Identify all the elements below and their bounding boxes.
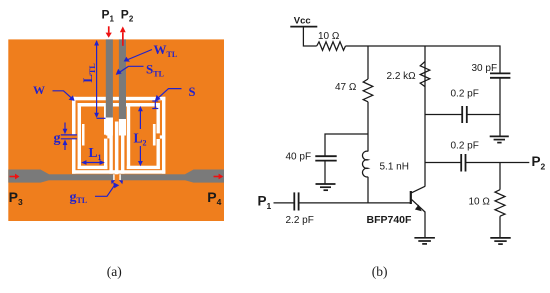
ground 40pF — [316, 183, 336, 185]
resistor R 10ohm zigzag — [317, 42, 346, 51]
svg-text:(b): (b) — [372, 264, 388, 279]
ground transistor — [414, 237, 435, 239]
blue labels — [33, 42, 196, 205]
svg-text:10 Ω: 10 Ω — [318, 31, 340, 42]
svg-text:S: S — [189, 85, 196, 99]
capacitor 0.2pF lower plates — [460, 154, 462, 172]
svg-text:47 Ω: 47 Ω — [335, 82, 357, 93]
wire inductor to base line — [367, 177, 369, 203]
right inner ring left side — [127, 103, 130, 169]
red port arrow P2 (up) — [120, 26, 126, 45]
central slot — [115, 122, 119, 175]
svg-text:0.2 pF: 0.2 pF — [451, 141, 479, 152]
svg-text:0.2 pF: 0.2 pF — [451, 89, 479, 100]
arrowheads L1 — [81, 160, 86, 165]
right inner ring right side (split) — [157, 103, 160, 133]
capacitor 2.2pF plates — [293, 192, 295, 210]
emitter arrowhead — [415, 205, 422, 212]
wire 40pF top tap — [325, 134, 368, 156]
red arrow on TL left — [10, 174, 20, 180]
slot column under feed strip 1 — [106, 118, 113, 136]
slot ring: outer top band — [72, 97, 165, 101]
svg-text:W: W — [33, 83, 45, 97]
capacitor 40pF plates — [315, 155, 336, 157]
arrowhead W — [69, 95, 75, 101]
wire 47ohm branch from top — [367, 46, 369, 79]
wire upper 0.2pF right — [467, 114, 500, 116]
wire 47ohm to inductor node — [367, 102, 369, 152]
svg-text:2.2 kΩ: 2.2 kΩ — [387, 71, 417, 82]
blue dimension annotations — [53, 41, 182, 196]
emitter diagonal — [412, 199, 426, 212]
svg-text:(a): (a) — [107, 264, 122, 279]
inductor 5.1nH coil — [362, 151, 368, 177]
ground 30pF — [490, 135, 509, 137]
wire base line — [299, 202, 410, 204]
left inner-to-outer bridge dash — [107, 135, 109, 138]
svg-text:30 pF: 30 pF — [472, 63, 498, 74]
wire 10ohm to ground — [499, 216, 501, 238]
resistor 47ohm zigzag — [363, 79, 373, 102]
capacitor 0.2pF upper plates — [461, 106, 463, 123]
feed strip P1 (gray microstrip) — [106, 39, 113, 117]
wire 10ohm branch down — [499, 163, 501, 190]
slot ring: outer bottom band — [72, 170, 165, 174]
wire 40pF to ground — [324, 161, 326, 184]
capacitor 30pF plates — [490, 72, 510, 74]
arrowheads g — [63, 129, 68, 135]
arrowhead STL — [116, 69, 122, 75]
collector wire up — [424, 46, 426, 187]
label STL leader — [118, 66, 144, 73]
arrowheads L2 — [138, 106, 143, 111]
wire Vcc down — [303, 27, 316, 46]
gTL gap mini arrows — [111, 180, 115, 184]
wire upper 0.2pF left — [425, 114, 462, 116]
slot ring: inner top band — [78, 103, 160, 107]
svg-text:BFP740F: BFP740F — [367, 214, 413, 226]
left outer ring left side (split at g) — [72, 97, 76, 135]
component labels (b) — [258, 16, 546, 227]
white slivers at TL gap — [113, 174, 114, 180]
arrowhead S — [155, 95, 161, 101]
svg-text:40 pF: 40 pF — [286, 152, 312, 163]
slot ring: inner bottom band right — [127, 166, 160, 169]
svg-text:Vcc: Vcc — [294, 16, 311, 27]
slot ring: inner bottom band left — [78, 166, 108, 169]
arrowhead WTL — [124, 57, 130, 62]
bottom transmission line P3-P4 — [8, 170, 224, 183]
substrate board — [8, 39, 224, 221]
wire 30pF to ground — [499, 78, 501, 137]
gTL leader — [95, 184, 116, 197]
svg-text:2.2 pF: 2.2 pF — [286, 215, 314, 226]
svg-text:g: g — [54, 131, 61, 146]
left outer ring right side — [109, 97, 112, 174]
label S leader — [158, 89, 182, 99]
label WTL leader — [128, 50, 152, 60]
left inner ring split overlap stub — [82, 124, 85, 146]
label W leader — [53, 91, 72, 99]
resistor 2.2k zigzag — [420, 62, 430, 87]
L1 dimension line — [83, 162, 103, 164]
Vcc rail tick — [290, 26, 317, 28]
right inner-to-outer bridge dash — [160, 135, 163, 138]
svg-text:5.1 nH: 5.1 nH — [380, 162, 409, 173]
slot column under feed strip 2 — [119, 119, 126, 136]
L2 dimension lines — [139, 110, 141, 129]
wire lower 0.2pF right to P2 — [466, 162, 530, 164]
right outer ring left side — [121, 97, 124, 174]
svg-text:10 Ω: 10 Ω — [469, 197, 491, 208]
wire P1 to cap 2.2pF — [274, 202, 295, 204]
left inner ring left side — [78, 103, 81, 169]
collector diagonal — [412, 186, 426, 193]
s marker right — [154, 101, 156, 109]
ground 10ohm — [490, 237, 510, 239]
transistor base bar — [410, 191, 412, 204]
right inner ring split overlap stub — [153, 124, 156, 146]
feed strip P2 (gray microstrip) — [119, 39, 126, 119]
top wire — [346, 46, 501, 73]
emitter wire down — [424, 212, 426, 238]
right outer ring right side — [162, 97, 165, 174]
arrowheads LTL — [94, 40, 99, 46]
g dimension — [64, 123, 66, 130]
red arrow on TL right — [214, 174, 224, 180]
arrowhead gTL — [113, 182, 119, 188]
left inner ring right side (split) — [104, 103, 107, 135]
resistor 10ohm right zigzag — [495, 190, 505, 217]
wire lower 0.2pF left — [425, 162, 461, 164]
LTL dimension line — [96, 41, 98, 117]
red port arrow P1 (down) — [106, 26, 112, 38]
